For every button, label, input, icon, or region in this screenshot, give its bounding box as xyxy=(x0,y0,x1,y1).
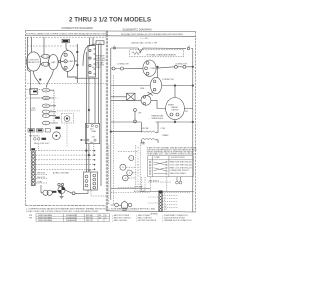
svg-text:24V TAP: 24V TAP xyxy=(141,127,149,130)
svg-text:B: B xyxy=(137,170,138,172)
svg-text:△ TERMINAL BLOCK CONNECTION: △ TERMINAL BLOCK CONNECTION xyxy=(162,219,192,222)
svg-text:VOLT: VOLT xyxy=(31,110,37,112)
svg-text:CONTACTOR: CONTACTOR xyxy=(162,78,174,81)
svg-text:W1: W1 xyxy=(164,209,167,211)
svg-text:WITH FACTORY INSTALLED OPTIONS: WITH FACTORY INSTALLED OPTIONS AND FIELD… xyxy=(121,33,183,36)
svg-text:TRANS: TRANS xyxy=(162,134,169,137)
svg-text:CONTACTOR: CONTACTOR xyxy=(175,62,187,65)
svg-text:REV C: REV C xyxy=(86,220,92,222)
svg-text:COOL ONLY STAT 1F56-444: COOL ONLY STAT 1F56-444 xyxy=(170,163,192,166)
svg-text:OPTIONAL CRANKCASE HEATER: OPTIONAL CRANKCASE HEATER xyxy=(146,53,176,56)
svg-text:CONTACTOR: CONTACTOR xyxy=(117,62,129,65)
svg-text:SEE NOTES 2 AND 3: SEE NOTES 2 AND 3 xyxy=(170,172,186,175)
svg-text:ACCESSORY: ACCESSORY xyxy=(134,190,146,193)
svg-text:CONNECTION DIAGRAM: CONNECTION DIAGRAM xyxy=(61,26,93,30)
svg-text:FAN MOTOR: FAN MOTOR xyxy=(28,61,40,64)
svg-text:C --- GR: C --- GR xyxy=(140,38,148,40)
svg-text:SEE NOTE: SEE NOTE xyxy=(37,173,45,175)
svg-text:S2: S2 xyxy=(99,218,101,220)
svg-text:FIELD LOW VOLT: FIELD LOW VOLT xyxy=(34,143,50,145)
svg-text:VIO GRN: VIO GRN xyxy=(92,67,101,69)
svg-text:0140A00051: 0140A00051 xyxy=(66,219,76,222)
svg-text:B: B xyxy=(137,176,138,178)
svg-text:SEE NOTE: SEE NOTE xyxy=(37,177,45,179)
svg-text:←: ← xyxy=(148,118,150,120)
svg-text:L: L xyxy=(138,178,139,180)
svg-text:WHEN USED: WHEN USED xyxy=(152,118,164,120)
svg-text:L: L xyxy=(138,156,139,158)
svg-text:HEAT PUMP STAT 1F82-261: HEAT PUMP STAT 1F82-261 xyxy=(170,161,192,164)
svg-text:OFM: OFM xyxy=(140,88,145,90)
svg-text:WIRE DIAGRAM: WIRE DIAGRAM xyxy=(38,219,52,222)
svg-text:23: 23 xyxy=(47,56,49,58)
svg-text:HOOKUP NOTES: HOOKUP NOTES xyxy=(171,157,185,159)
svg-text:CAP: CAP xyxy=(51,61,56,64)
svg-text:T-STAT: T-STAT xyxy=(154,156,160,159)
svg-text:A FIELD GROUND: A FIELD GROUND xyxy=(53,172,70,175)
svg-text:21: 21 xyxy=(43,56,45,58)
svg-text:LEGEND: LEGEND xyxy=(150,213,158,215)
svg-text:DEF: DEF xyxy=(88,170,91,172)
svg-text:HEAT COOL STAT 1F56-447: HEAT COOL STAT 1F56-447 xyxy=(170,166,192,169)
svg-text:W2: W2 xyxy=(164,206,167,208)
svg-text:SEE NOTE 4: SEE NOTE 4 xyxy=(149,180,159,182)
svg-text:11: 11 xyxy=(43,64,45,66)
svg-text:208/230 VAC, 60 HZ, 1 PH: 208/230 VAC, 60 HZ, 1 PH xyxy=(131,42,158,45)
svg-text:TRAN: TRAN xyxy=(91,130,97,133)
svg-text:13: 13 xyxy=(47,64,49,66)
svg-text:△ FIELD GROUND: △ FIELD GROUND xyxy=(112,219,128,222)
svg-text:240: 240 xyxy=(45,90,48,92)
svg-text:△ PROTECTIVE DEVICE: △ PROTECTIVE DEVICE xyxy=(136,219,157,222)
svg-text:COMP: COMP xyxy=(150,68,156,70)
svg-text:ASSIST: ASSIST xyxy=(172,106,180,109)
svg-text:COM: COM xyxy=(161,128,166,130)
svg-text:LOW AMB: LOW AMB xyxy=(134,186,143,189)
svg-text:FOR FIELD WIRING USE COPPER CO: FOR FIELD WIRING USE COPPER CONDUCTORS S… xyxy=(26,32,108,35)
svg-text:SCHEMATIC DIAGRAM: SCHEMATIC DIAGRAM xyxy=(123,28,153,32)
svg-text:LOCAL CODES. USE COPPER CONDUC: LOCAL CODES. USE COPPER CONDUCTORS ONLY.… xyxy=(26,210,99,213)
svg-text:COMP: COMP xyxy=(68,61,75,63)
svg-text:SEE NOTE 1: SEE NOTE 1 xyxy=(29,136,40,138)
svg-text:DEVICE: DEVICE xyxy=(171,110,179,112)
svg-text:2 THRU 3 1/2 TON MODELS: 2 THRU 3 1/2 TON MODELS xyxy=(69,17,151,24)
svg-text:OF AT LEAST 105 C. USE COPPER: OF AT LEAST 105 C. USE COPPER CONDUCTORS… xyxy=(147,153,197,156)
svg-text:2 STAGE STAT 1F82-277: 2 STAGE STAT 1F82-277 xyxy=(170,169,189,172)
svg-text:COM: COM xyxy=(140,142,145,144)
